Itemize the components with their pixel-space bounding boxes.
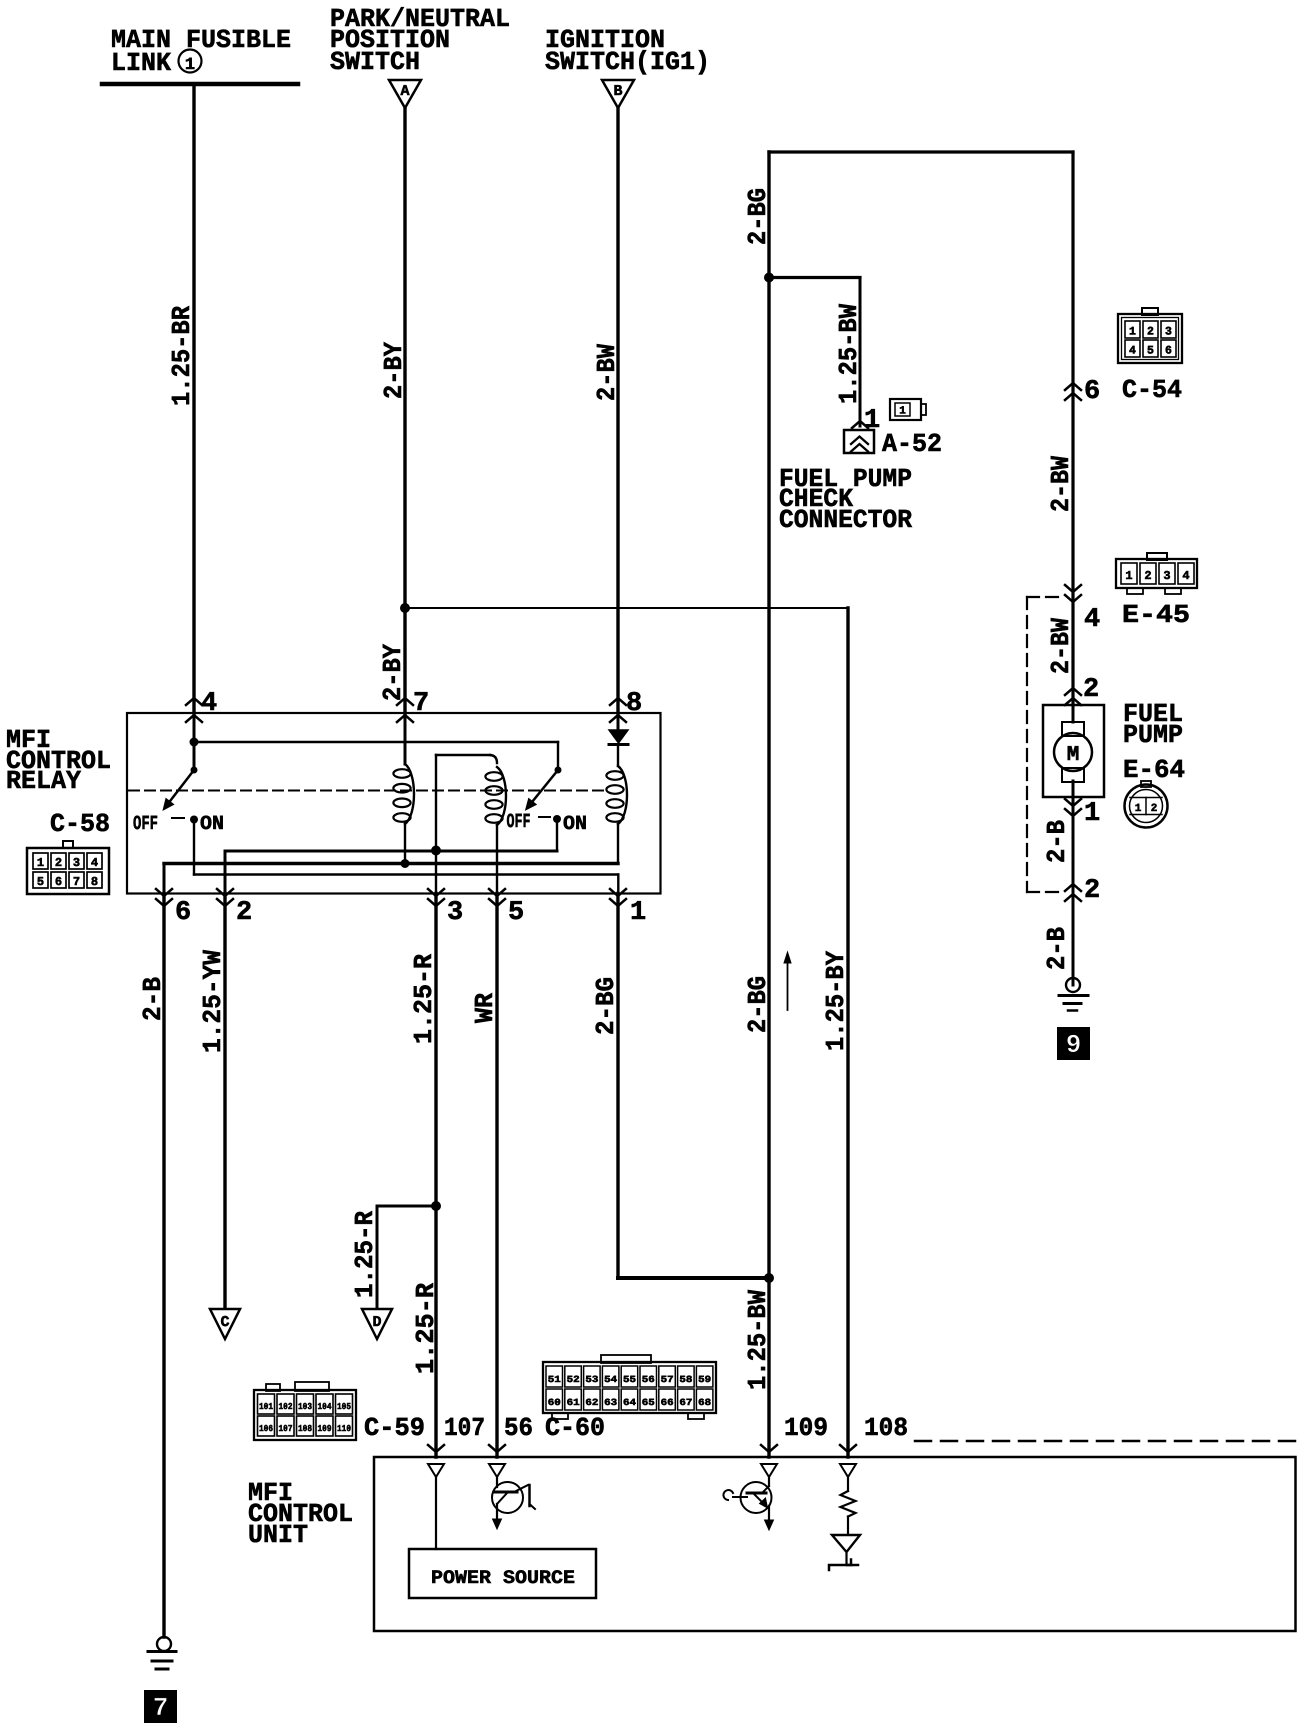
svg-text:6: 6: [55, 875, 62, 889]
svg-text:51: 51: [548, 1374, 561, 1385]
svg-text:5: 5: [37, 875, 44, 889]
svg-text:1.25-BR: 1.25-BR: [167, 306, 197, 406]
pin 2 arrows out of relay: [217, 889, 233, 896]
node junction W2 branch to 1.25-BY: [400, 603, 410, 613]
motor M symbol: [1062, 722, 1084, 736]
switch 1 arm: [167, 770, 194, 805]
resistor R1: [847, 1477, 849, 1491]
pin 5 arrows out of relay: [489, 889, 505, 896]
svg-text:1: 1: [1125, 569, 1132, 583]
svg-text:WR: WR: [470, 993, 500, 1023]
svg-text:OFF: OFF: [507, 811, 531, 834]
svg-text:3: 3: [73, 856, 80, 870]
wire H5 pin1 to W4: [618, 1276, 769, 1280]
svg-text:8: 8: [91, 875, 98, 889]
svg-text:110: 110: [337, 1424, 351, 1434]
svg-text:106: 106: [259, 1424, 273, 1434]
wire H863 coil commons to pin 6: [164, 862, 618, 865]
svg-text:68: 68: [698, 1397, 711, 1408]
svg-text:E-64: E-64: [1123, 755, 1185, 785]
svg-text:E-45: E-45: [1122, 600, 1190, 630]
wire W7 right vertical 2-BW: [1071, 152, 1074, 705]
svg-text:2-BY: 2-BY: [379, 342, 409, 399]
switch 1 ON contact: [190, 816, 198, 824]
svg-text:ON: ON: [200, 813, 224, 836]
switch 2 ON contact: [553, 815, 561, 823]
transistor Q2: [768, 1477, 770, 1486]
connector C triangle: [210, 1309, 240, 1339]
current direction arrow: [787, 962, 789, 1010]
svg-text:103: 103: [298, 1402, 312, 1412]
svg-text:102: 102: [279, 1402, 293, 1412]
input arrow 56 inside unit: [489, 1464, 505, 1477]
svg-text:7: 7: [73, 875, 80, 889]
wire pin5 down WR: [495, 894, 498, 1458]
pin 109 arrow into MFI unit: [761, 1445, 777, 1452]
wire pin 4 to switch 1 pivot: [193, 713, 196, 770]
svg-text:2-B: 2-B: [138, 977, 168, 1021]
svg-text:3: 3: [1165, 326, 1172, 339]
svg-text:2-BY: 2-BY: [378, 644, 408, 701]
wire coil2 bottom to pin 5: [496, 825, 498, 894]
svg-text:7: 7: [413, 689, 429, 719]
svg-text:5: 5: [1147, 345, 1154, 358]
connector C-59 grid: [266, 1384, 280, 1391]
coil L3 under diode: [617, 745, 619, 767]
pin 1 arrow below fuel pump: [1065, 799, 1081, 806]
svg-text:2: 2: [1151, 803, 1158, 815]
connector A park/neutral switch: [389, 80, 421, 108]
svg-text:1.25-R: 1.25-R: [409, 954, 439, 1044]
svg-text:D: D: [372, 1314, 381, 1331]
svg-text:1.25-R: 1.25-R: [350, 1211, 380, 1298]
pin 107 arrow into MFI unit: [428, 1445, 444, 1452]
pin 7 arrows into relay: [397, 698, 413, 705]
svg-text:1: 1: [1129, 326, 1136, 339]
wire W3 ignition to relay pin 8: [616, 108, 619, 713]
svg-text:66: 66: [661, 1397, 674, 1408]
svg-text:61: 61: [567, 1397, 580, 1408]
switch 2 pivot: [555, 767, 562, 774]
svg-text:C-59: C-59: [364, 1413, 425, 1443]
relay box outline: [127, 713, 661, 894]
svg-text:SWITCH(IG1): SWITCH(IG1): [545, 47, 710, 77]
connector C-58 grid: [63, 841, 73, 848]
svg-text:RELAY: RELAY: [6, 766, 81, 796]
svg-text:4: 4: [201, 689, 217, 719]
svg-text:2: 2: [1147, 326, 1154, 339]
svg-text:60: 60: [548, 1397, 561, 1408]
wire pin1 down 2-BG: [616, 894, 619, 1279]
wire W2 park/neutral to relay pin 7: [403, 108, 406, 713]
switch 2 arm: [528, 770, 558, 807]
svg-text:8: 8: [626, 689, 642, 719]
svg-text:B: B: [613, 83, 622, 100]
pin 3 arrows out of relay: [428, 889, 444, 896]
pin 8 arrows into relay: [610, 698, 626, 705]
pin 4 arrow into E-45: [1065, 585, 1081, 592]
wire H2 top bus 2-BG: [769, 150, 1073, 153]
wire pin2 drop: [224, 851, 227, 894]
connector E-64 round pictograph: [1125, 785, 1168, 828]
wire pin3 down 1.25-R: [434, 894, 437, 1458]
wire W4 2-BG vertical: [767, 152, 770, 1457]
svg-text:ON: ON: [563, 813, 587, 836]
svg-text:101: 101: [259, 1402, 274, 1412]
fuel pump box E-64: [1043, 705, 1104, 797]
svg-text:59: 59: [698, 1374, 711, 1385]
svg-text:PUMP: PUMP: [1123, 720, 1183, 750]
wire 107 to power source: [435, 1477, 437, 1549]
svg-text:6: 6: [1084, 377, 1100, 407]
svg-text:CONNECTOR: CONNECTOR: [779, 505, 912, 535]
connector C-60 grid: [601, 1355, 651, 1363]
wire below fuel pump: [1072, 781, 1075, 985]
node junction pin4 branch: [190, 738, 199, 747]
wire W1 fusible link to relay pin 4: [192, 84, 195, 713]
svg-text:105: 105: [337, 1402, 351, 1412]
wire H874 switch1-ON to pin 1: [194, 873, 618, 875]
svg-text:108: 108: [864, 1413, 908, 1443]
svg-text:UNIT: UNIT: [248, 1520, 308, 1550]
svg-text:56: 56: [642, 1374, 655, 1385]
svg-text:64: 64: [623, 1397, 636, 1408]
svg-text:3: 3: [1163, 569, 1170, 583]
svg-text:63: 63: [604, 1397, 617, 1408]
dashed boundary line right of 108: [915, 1440, 1296, 1443]
svg-text:2-B: 2-B: [1042, 820, 1072, 863]
svg-text:2: 2: [1083, 675, 1099, 705]
svg-text:A-52: A-52: [882, 429, 942, 459]
pin 1 arrow into A-52: [852, 421, 868, 428]
wire H851 pin2 to switch2: [225, 850, 557, 853]
svg-text:56: 56: [504, 1413, 533, 1443]
svg-text:109: 109: [318, 1424, 332, 1434]
svg-text:M: M: [1067, 744, 1080, 767]
svg-text:52: 52: [567, 1374, 580, 1385]
node junction coil1 bottom: [401, 859, 410, 868]
node junction W4 H5: [764, 1273, 774, 1283]
svg-text:3: 3: [447, 898, 463, 928]
svg-text:C-60: C-60: [545, 1413, 605, 1443]
wire H742 pin4 to switch 2: [194, 741, 558, 743]
svg-text:SWITCH: SWITCH: [330, 47, 420, 77]
connector C-54 grid: [1118, 314, 1182, 363]
wire pin6 drop: [163, 864, 166, 894]
wire pin2 to connector C: [223, 894, 226, 1310]
pin 108 arrow into MFI unit: [840, 1445, 856, 1452]
input arrow 109 inside unit: [761, 1464, 777, 1477]
svg-text:1: 1: [864, 406, 880, 436]
pin 6 arrow to C-54: [1065, 383, 1081, 390]
pin 4 arrows into relay: [186, 698, 202, 705]
transistor Q1: [496, 1477, 498, 1487]
coil L2 top lead: [436, 754, 490, 756]
svg-text:65: 65: [642, 1397, 655, 1408]
svg-text:6: 6: [1165, 345, 1172, 358]
svg-text:2-BG: 2-BG: [743, 188, 773, 245]
svg-text:2: 2: [1084, 876, 1100, 906]
wire H3 branch to A-52: [769, 276, 860, 279]
wire switch1 ON to H874: [193, 820, 195, 875]
svg-text:6: 6: [175, 898, 191, 928]
main fusible link bus bar: [102, 82, 298, 87]
svg-text:4: 4: [91, 856, 98, 870]
wire branch to connector D: [377, 1205, 436, 1208]
coil L2: [497, 767, 506, 825]
svg-text:1: 1: [37, 856, 44, 870]
wire branch H4 to connector 108: [405, 607, 848, 609]
svg-text:2: 2: [55, 856, 62, 870]
svg-text:1: 1: [1135, 803, 1142, 815]
svg-text:1: 1: [630, 898, 646, 928]
svg-text:107: 107: [279, 1424, 293, 1434]
svg-text:53: 53: [585, 1374, 598, 1385]
svg-text:C-54: C-54: [1122, 375, 1182, 405]
svg-text:62: 62: [585, 1397, 598, 1408]
wire drop to switch 2 pivot: [557, 742, 559, 770]
node junction coil2/pin3 on H851: [431, 846, 441, 856]
wire W6 down to pin 108: [846, 608, 849, 1457]
svg-text:109: 109: [784, 1413, 828, 1443]
svg-text:1: 1: [185, 56, 195, 75]
node junction to fuel pump check connector: [764, 273, 774, 283]
svg-text:2-BG: 2-BG: [591, 977, 621, 1035]
pin 56 arrow into MFI unit: [489, 1445, 505, 1452]
wire into fuel pump box: [1072, 597, 1075, 722]
wire pin6 to ground 2-B: [162, 894, 165, 1638]
pin 6 arrows out of relay: [156, 889, 172, 896]
svg-text:2-BW: 2-BW: [592, 344, 622, 401]
ground chassis left: [157, 1637, 171, 1651]
svg-text:4: 4: [1084, 605, 1100, 635]
svg-text:104: 104: [318, 1402, 333, 1412]
svg-text:2: 2: [236, 898, 252, 928]
connector E-45 grid: [1116, 559, 1197, 588]
svg-text:1.25-R: 1.25-R: [411, 1283, 441, 1374]
svg-text:1.25-BW: 1.25-BW: [743, 1290, 773, 1390]
svg-text:2-BG: 2-BG: [743, 976, 773, 1033]
svg-text:7: 7: [153, 1693, 169, 1723]
wire coil2-top to H851 and pin 3: [435, 755, 437, 894]
connector A-52 fuel pump check connector: [844, 430, 874, 453]
svg-text:67: 67: [679, 1397, 692, 1408]
ground reference 7 black box: [144, 1690, 177, 1723]
svg-text:C-58: C-58: [50, 809, 110, 839]
svg-text:LINK: LINK: [111, 48, 171, 78]
wire pin1 drop: [617, 875, 619, 894]
dashed harness box around fuel pump: [1026, 597, 1028, 892]
pin 2 arrow at harness box exit: [1065, 884, 1081, 891]
svg-text:C: C: [220, 1314, 229, 1331]
diode D1 under pin 8: [617, 713, 620, 731]
svg-text:55: 55: [623, 1374, 636, 1385]
connector D triangle: [362, 1309, 392, 1339]
svg-text:58: 58: [679, 1374, 692, 1385]
svg-text:5: 5: [508, 898, 524, 928]
connector icon A-52 pictograph: [890, 399, 921, 420]
svg-text:57: 57: [661, 1374, 674, 1385]
pin 1 arrows out of relay: [610, 889, 626, 896]
svg-text:9: 9: [1066, 1030, 1082, 1060]
svg-text:54: 54: [604, 1374, 617, 1385]
svg-text:1.25-BW: 1.25-BW: [834, 304, 864, 404]
pin 2 arrow into fuel pump: [1065, 688, 1081, 695]
svg-text:1: 1: [899, 406, 906, 418]
input arrow 108 inside unit: [840, 1464, 856, 1477]
switch 1 pivot: [191, 767, 198, 774]
coil L1 under pin 7: [404, 713, 407, 764]
connector B ignition switch: [602, 80, 634, 108]
svg-text:107: 107: [444, 1413, 485, 1443]
svg-text:OFF: OFF: [133, 813, 158, 836]
zener diode Z1: [847, 1517, 849, 1536]
svg-text:2: 2: [1144, 569, 1151, 583]
MFI control unit box: [374, 1457, 1296, 1631]
svg-text:A: A: [400, 83, 409, 100]
input arrow 107 inside unit: [428, 1464, 444, 1477]
svg-text:4: 4: [1129, 345, 1136, 358]
wire switch2 ON to H851: [556, 819, 558, 851]
svg-text:POWER SOURCE: POWER SOURCE: [431, 1567, 575, 1589]
power source block: [409, 1549, 596, 1598]
svg-text:2-BW: 2-BW: [1046, 456, 1076, 512]
svg-text:1: 1: [1084, 799, 1100, 829]
svg-text:4: 4: [1182, 569, 1189, 583]
ground fuel pump: [1066, 978, 1080, 992]
svg-text:2-B: 2-B: [1042, 927, 1072, 970]
ground reference 9 black box: [1057, 1027, 1090, 1060]
wire W5 1.25-BW to A-52: [859, 278, 862, 427]
relay dashed actuation line: [129, 790, 609, 792]
node junction pin3 branch to D: [431, 1201, 441, 1211]
svg-text:108: 108: [298, 1424, 312, 1434]
svg-text:1.25-YW: 1.25-YW: [198, 950, 228, 1053]
